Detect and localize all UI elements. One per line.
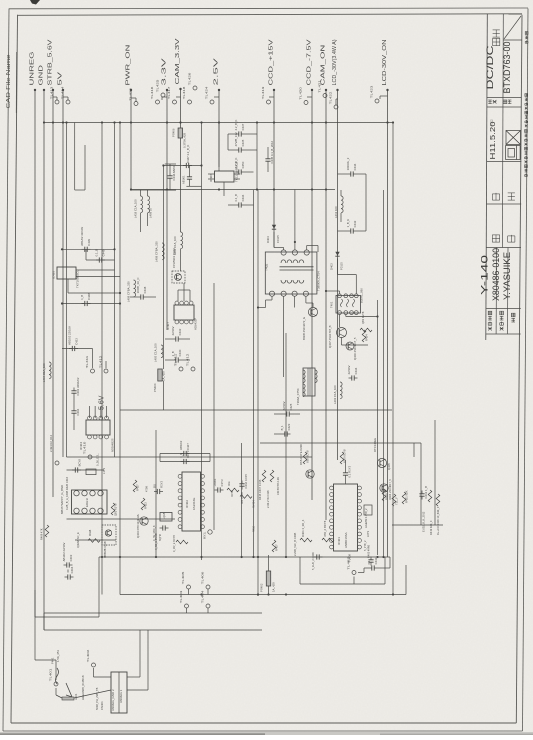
svg-text:R421 92K: R421 92K — [405, 490, 409, 503]
wire — [214, 96, 219, 98]
svg-text:CPH5901 QX10: CPH5901 QX10 — [172, 247, 176, 268]
svg-text:R401 3_3R_6: R401 3_3R_6 — [301, 519, 305, 537]
svg-text:TL410: TL410 — [82, 441, 86, 454]
svg-text:R407: R407 — [275, 544, 279, 551]
wire — [127, 689, 148, 691]
wire — [271, 296, 273, 300]
wire — [269, 96, 274, 98]
wire — [357, 230, 367, 232]
dashed box Q402 — [102, 525, 116, 545]
connector marker — [55, 461, 59, 465]
svg-text:BQH3: BQH3 — [159, 534, 162, 541]
inductor L402 — [181, 232, 183, 249]
svg-text:R430: R430 — [385, 493, 389, 500]
scan bottom edge shadow — [0, 732, 533, 735]
wire — [34, 617, 36, 660]
svg-text:TL413: TL413 — [49, 86, 53, 99]
wire — [338, 274, 357, 276]
wire — [189, 166, 191, 174]
svg-text:C1Y3: C1Y3 — [220, 479, 224, 486]
title block left edge — [486, 14, 488, 340]
test point TL406 — [200, 571, 210, 589]
table divider — [507, 248, 510, 335]
power rail CCD_+15V — [269, 39, 276, 248]
svg-text:C413 1_B: C413 1_B — [424, 486, 428, 499]
wire — [274, 433, 282, 435]
svg-text:IC426: IC426 — [51, 271, 55, 279]
test point TL403 — [179, 590, 189, 608]
svg-text:C442: C442 — [374, 557, 378, 564]
test point TL414 — [60, 86, 70, 104]
wire — [413, 443, 415, 457]
svg-text:90H8: 90H8 — [88, 529, 92, 536]
svg-text:IC406: IC406 — [209, 174, 213, 182]
lower horizontal buses — [120, 409, 392, 411]
small box SEB — [364, 505, 372, 515]
svg-text:ANBD16SA: ANBD16SA — [344, 532, 348, 548]
svg-text:CN401: CN401 — [100, 701, 104, 710]
svg-text:C423: C423 — [287, 423, 291, 430]
svg-text:AB1/02 22/16V: AB1/02 22/16V — [67, 326, 71, 345]
svg-text:T402: T402 — [264, 264, 268, 271]
capacitor — [234, 158, 245, 175]
wire — [358, 572, 364, 574]
wire — [88, 406, 90, 418]
svg-text:BCY8: BCY8 — [78, 459, 82, 467]
wire — [189, 183, 191, 187]
wire — [160, 453, 210, 455]
resistor — [428, 490, 432, 502]
svg-text:TL412: TL412 — [185, 353, 189, 366]
wire — [245, 204, 254, 206]
svg-text:R409 47K: R409 47K — [40, 528, 44, 540]
resistor R424 — [362, 330, 366, 342]
wire — [207, 608, 209, 613]
wire — [147, 630, 149, 690]
test point TL411 — [173, 353, 183, 371]
wire — [228, 204, 236, 206]
wire — [392, 123, 394, 595]
test point TL421 — [317, 80, 327, 98]
wire — [337, 259, 339, 275]
power rail GND — [39, 65, 46, 630]
power rail LCD_-30V(3.4W A) — [332, 39, 339, 460]
wire — [336, 98, 338, 100]
wire — [119, 123, 121, 595]
wire — [389, 557, 391, 568]
svg-text:C437: C437 — [241, 123, 245, 130]
svg-text:C450: C450 — [241, 161, 245, 168]
svg-text:R415 C41? 0.015: R415 C41? 0.015 — [258, 479, 262, 500]
svg-text:X0E: X0E — [228, 481, 231, 486]
wire — [163, 165, 201, 167]
svg-text:IC407: IC407 — [166, 322, 170, 330]
svg-text:2.2_B_K: 2.2_B_K — [234, 120, 238, 131]
wire — [227, 134, 229, 150]
kanji text — [525, 32, 528, 44]
svg-text:EDH3I: EDH3I — [85, 498, 89, 507]
wire — [245, 171, 254, 173]
diode D404 F01J5 — [272, 225, 276, 229]
wire — [379, 96, 381, 99]
wire — [434, 420, 436, 525]
test point TL417 — [167, 86, 177, 104]
wire — [140, 190, 142, 196]
svg-text:TL417: TL417 — [167, 86, 171, 99]
wire — [62, 348, 93, 350]
wire — [130, 189, 176, 191]
capacitor — [314, 554, 323, 559]
transformer T402 — [264, 250, 320, 296]
svg-text:2.2R6_5LF_B C40B: 2.2R6_5LF_B C40B — [293, 533, 297, 556]
svg-text:UNREG_GND 2: UNREG_GND 2 — [111, 689, 115, 711]
svg-text:B36HL_096: B36HL_096 — [359, 288, 363, 303]
row divider — [487, 97, 522, 99]
check row kanji — [492, 235, 499, 242]
svg-text:T401: T401 — [329, 301, 333, 308]
kanji text — [488, 311, 492, 330]
svg-text:PS402: PS402 — [259, 583, 263, 592]
wire — [268, 586, 270, 595]
svg-text:1_B: 1_B — [80, 295, 84, 300]
svg-text:DTC144EE: DTC144EE — [373, 438, 377, 452]
wire — [265, 300, 267, 308]
svg-text:RY404: RY404 — [253, 500, 256, 508]
svg-text:IQRAB NC_E: IQRAB NC_E — [76, 532, 80, 548]
power rail STRB_5.6V — [48, 39, 55, 497]
svg-text:5038_PH_2W5_TB: 5038_PH_2W5_TB — [95, 687, 99, 710]
wire — [268, 555, 270, 571]
capacitor — [234, 120, 245, 137]
resistor — [88, 539, 100, 543]
IC407 HD6433P — [174, 301, 194, 324]
svg-text:0_36_E 3_: 0_36_E 3_ — [96, 453, 100, 466]
inductor L418 — [141, 196, 143, 213]
horizontal bus y=189.5 — [131, 189, 335, 191]
svg-text:Q405: Q405 — [387, 463, 391, 470]
wire — [94, 406, 96, 418]
wire — [84, 145, 86, 190]
fuse PS406 — [178, 128, 182, 138]
wire — [67, 570, 69, 573]
wire — [405, 565, 407, 595]
test point TL413 — [49, 86, 59, 104]
test point TL407 — [346, 557, 356, 575]
wire — [85, 249, 87, 260]
Q410 CPH5901 — [172, 271, 185, 283]
test point TL418 — [182, 86, 192, 104]
svg-text:R405 49R6: R405 49R6 — [367, 544, 371, 558]
svg-text:2.3K 27K C416: 2.3K 27K C416 — [266, 490, 270, 508]
wire — [98, 557, 100, 617]
svg-text:1_B: 1_B — [179, 453, 183, 458]
wire — [294, 296, 296, 307]
svg-text:C438: C438 — [143, 286, 147, 293]
power rail 3.3V — [162, 57, 169, 330]
svg-text:TL403: TL403 — [179, 590, 183, 603]
svg-text:1A_429: 1A_429 — [162, 371, 166, 381]
svg-text:TL411: TL411 — [85, 355, 89, 368]
wire — [94, 676, 112, 678]
IC426 TK71650SCL — [51, 267, 76, 279]
svg-text:C430: C430 — [178, 349, 182, 356]
capacitor — [265, 141, 273, 165]
svg-text:UNREG: UNREG — [30, 52, 36, 86]
IC404 N5564B2S — [86, 416, 110, 439]
wire — [73, 397, 75, 408]
kanji text — [525, 94, 528, 128]
svg-text:F01J5: F01J5 — [339, 262, 343, 270]
transformer T401 — [296, 368, 317, 405]
resistor — [227, 488, 239, 492]
test point TL416 — [150, 86, 160, 104]
svg-text:Q403 DTC114EUA: Q403 DTC114EUA — [136, 514, 140, 538]
transformer T401 B36HL_096 — [329, 288, 363, 315]
svg-text:L413 100: L413 100 — [334, 206, 338, 218]
svg-text:C439: C439 — [87, 239, 91, 246]
svg-text:TL420: TL420 — [298, 87, 302, 100]
resistor — [402, 492, 406, 504]
capacitor — [368, 557, 373, 566]
inductor — [162, 243, 164, 260]
sidebar underline — [15, 52, 17, 113]
wire — [383, 190, 385, 557]
wire — [93, 668, 95, 677]
svg-text:5_1L/0_2 C409: 5_1L/0_2 C409 — [311, 552, 315, 570]
svg-text:L405 C1A_100: L405 C1A_100 — [153, 343, 157, 362]
resistor — [382, 489, 386, 501]
capacitor — [367, 557, 378, 570]
wire — [339, 315, 341, 328]
svg-text:RCY8: RCY8 — [231, 490, 234, 497]
svg-text:C403 3X91/02: C403 3X91/02 — [76, 377, 80, 395]
svg-text:IC402: IC402 — [185, 500, 189, 508]
row divider — [487, 203, 522, 205]
wire — [66, 123, 68, 458]
svg-text:Q406 2SC4617_5: Q406 2SC4617_5 — [353, 337, 357, 360]
power rail UNREG — [30, 52, 37, 618]
wire — [338, 230, 348, 232]
svg-text:AB1/02: AB1/02 — [179, 440, 183, 450]
capacitor — [62, 542, 73, 567]
svg-text:TK71650SCL: TK71650SCL — [75, 270, 79, 288]
wire — [257, 190, 259, 596]
wire — [207, 589, 209, 595]
svg-text:L404 C1A_100: L404 C1A_100 — [42, 363, 46, 382]
svg-text:TL416: TL416 — [150, 86, 154, 99]
svg-text:C434: C434 — [354, 367, 358, 374]
wire — [317, 246, 319, 253]
wire — [241, 443, 243, 557]
svg-text:R424: R424 — [365, 334, 369, 341]
resistor — [133, 480, 137, 492]
fuse PS402 — [266, 571, 270, 586]
svg-text:F01J5: F01J5 — [276, 235, 280, 243]
wire — [253, 190, 255, 557]
svg-text:1.5A_451: 1.5A_451 — [56, 650, 60, 662]
svg-text:TL415: TL415 — [128, 88, 132, 101]
wire — [165, 338, 173, 340]
svg-text:TL411: TL411 — [173, 353, 177, 366]
svg-text:+0001: +0001 — [213, 478, 217, 486]
wire — [76, 269, 115, 271]
svg-text:C432: C432 — [178, 328, 182, 335]
row divider — [487, 106, 522, 108]
resistor — [176, 540, 188, 544]
resistor — [240, 495, 252, 499]
svg-text:5.6V: 5.6V — [98, 395, 105, 410]
wire — [345, 479, 347, 485]
power rail LCD-30V_ON — [382, 39, 389, 557]
svg-text:AGE/99 0.3Y8_2: AGE/99 0.3Y8_2 — [364, 508, 368, 528]
wire — [392, 524, 443, 526]
capacitor — [213, 478, 224, 492]
wire — [165, 189, 176, 191]
wire — [380, 95, 388, 97]
svg-text:B(): B() — [152, 484, 156, 488]
wire — [130, 296, 138, 298]
wire — [307, 96, 312, 98]
test point TL422 — [328, 91, 338, 109]
resistor — [45, 525, 49, 537]
svg-text:L408 CFBA_330: L408 CFBA_330 — [126, 281, 130, 302]
power rail CCD_-7.5V — [307, 39, 314, 500]
capacitor — [171, 326, 182, 341]
resistor — [111, 503, 115, 515]
wire — [274, 413, 284, 415]
svg-text:60Y1L: 60Y1L — [204, 531, 207, 539]
svg-text:CAD File Name: CAD File Name — [6, 54, 12, 108]
inner drawing frame — [18, 14, 523, 16]
wire — [335, 99, 337, 105]
wire — [267, 165, 269, 173]
inductor — [161, 345, 163, 358]
svg-text:22/16V: 22/16V — [347, 365, 351, 374]
resistor — [262, 470, 266, 482]
wire — [162, 381, 164, 410]
wire — [147, 190, 149, 196]
svg-text:R423: R423 — [144, 502, 148, 509]
wire — [283, 248, 285, 251]
wire — [245, 149, 258, 151]
svg-text:TL404: TL404 — [200, 590, 204, 603]
wire — [56, 695, 62, 698]
wire — [306, 246, 308, 251]
capacitor — [239, 474, 247, 490]
capacitor — [71, 377, 79, 396]
svg-text:1/40V/L_3: 1/40V/L_3 — [346, 157, 350, 170]
capacitor — [65, 566, 75, 579]
svg-text:C403: C403 — [69, 554, 73, 561]
wire — [67, 279, 69, 293]
wire — [384, 557, 386, 584]
wire — [355, 275, 357, 295]
wire — [165, 163, 176, 165]
svg-text:0.1 R1Y3: 0.1 R1Y3 — [347, 465, 351, 477]
wire — [299, 557, 301, 584]
svg-text:TL412: TL412 — [98, 355, 102, 368]
svg-text:22/16V: 22/16V — [282, 401, 286, 410]
svg-text:TL423: TL423 — [369, 85, 373, 98]
wire — [306, 302, 313, 304]
svg-text:XDI BCY8 2.2K: XDI BCY8 2.2K — [276, 477, 280, 495]
svg-text:0.1_B: 0.1_B — [94, 249, 98, 256]
wire — [131, 97, 136, 99]
svg-text:L0Y3: L0Y3 — [366, 530, 370, 537]
wire — [76, 276, 120, 278]
wire — [258, 307, 266, 309]
IC402 FA3616E — [178, 472, 204, 531]
svg-text:Y-140: Y-140 — [479, 255, 490, 295]
test point TL412 — [98, 355, 108, 373]
jumper JA01 — [66, 683, 72, 697]
horizontal bus y=122.5 — [44, 122, 393, 124]
wire — [127, 676, 140, 678]
small header row marks — [488, 100, 492, 104]
wire — [177, 290, 179, 301]
wire — [55, 688, 57, 695]
svg-text:47R_6 BCY8: 47R_6 BCY8 — [323, 520, 327, 537]
resistor — [340, 452, 344, 464]
capacitor — [179, 440, 190, 456]
inductor L409 — [148, 196, 150, 213]
resistor — [392, 494, 396, 506]
inductor — [303, 384, 305, 397]
svg-text:AB1/02 33/10V: AB1/02 33/10V — [80, 227, 84, 246]
test point TL412 — [185, 353, 195, 371]
test point TL402 — [86, 649, 96, 667]
wire — [92, 349, 94, 369]
svg-text:1_B_K: 1_B_K — [346, 219, 350, 228]
wire — [353, 577, 355, 585]
capacitor — [167, 165, 175, 181]
svg-text:CCD_+15V: CCD_+15V — [269, 39, 275, 86]
svg-text:0.1_B: 0.1_B — [234, 194, 238, 201]
capacitor — [152, 480, 163, 494]
svg-text:QB1 R1Y8: QB1 R1Y8 — [114, 503, 118, 516]
wire — [67, 518, 176, 520]
svg-text:L408 CFBA_330: L408 CFBA_330 — [154, 241, 158, 262]
test point TL405 — [181, 571, 191, 589]
svg-text:C42?: C42? — [186, 443, 190, 450]
transistor Q403 — [140, 517, 148, 525]
resistor R426 (box style) — [86, 469, 96, 475]
wire — [159, 454, 161, 462]
row divider — [487, 247, 522, 249]
resistor — [300, 538, 312, 542]
wire — [74, 123, 76, 191]
wire — [183, 290, 185, 301]
wire — [378, 567, 391, 569]
wire — [267, 147, 269, 156]
svg-text:B_1: B_1 — [280, 425, 284, 430]
transistor DTA114YE — [306, 470, 314, 478]
test point TL419 — [261, 86, 271, 104]
connector CN401 — [95, 672, 127, 713]
svg-text:MB3776APPY_G_BND: MB3776APPY_G_BND — [60, 485, 64, 514]
svg-text:R1Y3: R1Y3 — [160, 480, 164, 487]
power rail CAM_ON — [321, 44, 328, 520]
inductor — [315, 370, 317, 383]
svg-text:E.035_B_K_2012: E.035_B_K_2012 — [422, 511, 426, 532]
svg-text:AB1/02 22/16V: AB1/02 22/16V — [62, 542, 66, 561]
inductor L408 CFBA_330 — [134, 280, 136, 297]
svg-text:X80486-0100: X80486-0100 — [491, 248, 502, 301]
wire — [183, 283, 185, 290]
wire — [75, 189, 85, 191]
svg-text:C404: C404 — [76, 408, 80, 415]
fuse PS404 — [158, 369, 162, 381]
